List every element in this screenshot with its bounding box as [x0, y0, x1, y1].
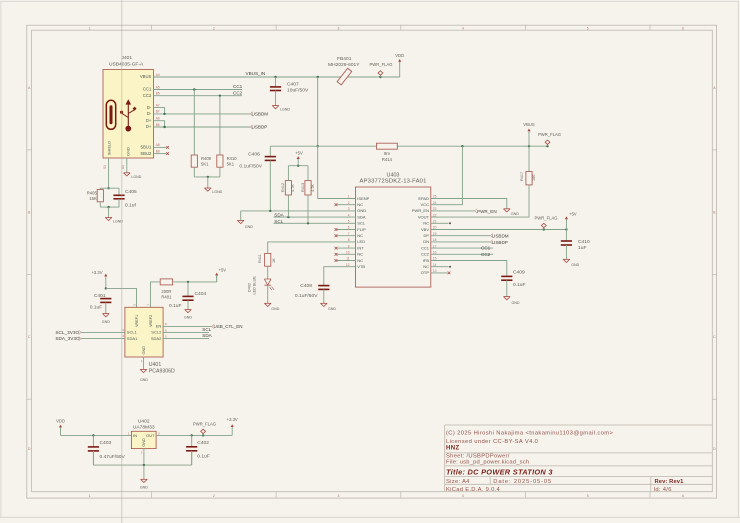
svg-text:PWR_FLAG: PWR_FLAG	[538, 132, 561, 137]
wire U401 gnd	[143, 357, 145, 369]
wire VDD to U402 IN	[61, 434, 132, 436]
svg-text:3: 3	[337, 26, 339, 30]
svg-text:C406: C406	[248, 152, 260, 158]
svg-text:+5V: +5V	[295, 150, 303, 155]
ground LGND below C407	[272, 106, 279, 109]
resistor R409	[191, 155, 197, 167]
wire U402 OUT to +3.3V	[156, 434, 232, 436]
ground GND below C408	[321, 303, 328, 306]
ground GND left of U403	[240, 211, 242, 221]
svg-text:Sheet: /USBPDPower/: Sheet: /USBPDPower/	[446, 453, 510, 459]
svg-text:C402: C402	[197, 440, 209, 446]
wire CC1 from J401	[154, 89, 243, 91]
svg-text:8: 8	[165, 322, 167, 326]
svg-text:VREF2: VREF2	[149, 315, 153, 327]
svg-text:100: 100	[532, 175, 536, 181]
svg-text:D+: D+	[146, 124, 152, 129]
wire +3.3V to VREF1	[106, 288, 137, 307]
svg-text:GND: GND	[102, 320, 110, 324]
svg-text:+5V: +5V	[569, 212, 577, 217]
svg-text:SDA1: SDA1	[127, 336, 138, 341]
wire CC2 pin16	[431, 253, 493, 255]
wire DP pin19	[431, 235, 491, 237]
svg-text:0.1uF: 0.1uF	[169, 303, 182, 309]
wire SCL pin5	[274, 222, 356, 224]
svg-text:B8: B8	[156, 149, 160, 153]
svg-text:MH2029-601Y: MH2029-601Y	[328, 62, 360, 68]
U403 pin 21 stub no-connect	[431, 222, 449, 224]
svg-text:5: 5	[165, 335, 167, 339]
junction CC1 to R409	[193, 88, 195, 90]
wire ISENP drop vertical	[317, 77, 319, 146]
svg-text:LGND: LGND	[131, 175, 141, 179]
wire LED pin8 to R411	[268, 242, 356, 254]
ic U403 body	[356, 187, 431, 287]
svg-text:UA78M33: UA78M33	[133, 425, 155, 431]
power symbol +5V u401	[216, 275, 218, 282]
wire +5V rail to pullups	[287, 166, 289, 181]
fold line horizontal	[0, 516, 740, 518]
svg-text:NC: NC	[357, 258, 363, 263]
svg-text:USBDM: USBDM	[492, 234, 509, 239]
svg-text:VBUS: VBUS	[140, 74, 152, 79]
power symbol +5V right	[565, 228, 567, 230]
svg-text:VDD: VDD	[56, 419, 65, 424]
svg-text:SDA_3V3O: SDA_3V3O	[55, 336, 80, 341]
power flag U402 out	[202, 434, 204, 436]
svg-text:CC2: CC2	[421, 252, 430, 257]
junction at ISENP drop	[317, 76, 319, 78]
svg-text:6: 6	[165, 328, 167, 332]
svg-text:File: usb_pd_power.kicad_sch: File: usb_pd_power.kicad_sch	[446, 460, 529, 466]
wire VBV pin20	[431, 229, 567, 231]
junction C406 bottom	[269, 210, 271, 212]
svg-text:C404: C404	[195, 291, 207, 297]
svg-text:C408: C408	[300, 283, 312, 289]
power symbol VBUS right	[528, 131, 530, 147]
svg-text:200R: 200R	[161, 289, 171, 294]
svg-text:PWR_EN: PWR_EN	[412, 208, 429, 213]
wire SDA pin4	[274, 216, 356, 218]
capacitor C405	[113, 194, 124, 196]
USB trident icon	[127, 103, 129, 128]
junction R414 bus left	[317, 145, 319, 147]
svg-text:PWR_FLAG: PWR_FLAG	[370, 62, 393, 67]
svg-text:GND: GND	[245, 225, 253, 229]
resistor R413	[307, 195, 309, 223]
wire GND pin3	[241, 210, 356, 212]
svg-text:GND: GND	[142, 438, 146, 447]
junction SDA R412	[287, 216, 289, 218]
wire C401 to gnd	[105, 302, 107, 313]
svg-text:GND: GND	[511, 212, 519, 216]
svg-text:SHIELD: SHIELD	[106, 141, 111, 156]
svg-text:4.7K: 4.7K	[311, 184, 315, 192]
svg-text:PCA9306D: PCA9306D	[149, 368, 175, 374]
svg-text:Size: A4: Size: A4	[446, 479, 470, 485]
wire U402 gnd rail	[143, 449, 145, 466]
svg-text:PWR_EN: PWR_EN	[477, 209, 497, 214]
svg-text:GND: GND	[357, 208, 366, 213]
svg-text:Id: 4/6: Id: 4/6	[654, 487, 672, 493]
svg-text:PWR_FLAG: PWR_FLAG	[193, 422, 216, 427]
svg-text:CC2: CC2	[143, 93, 152, 98]
svg-text:GND: GND	[142, 346, 146, 355]
resistor R405	[97, 190, 103, 202]
svg-text:SCL: SCL	[274, 219, 283, 224]
wire CC1 down to R409	[193, 90, 195, 156]
svg-text:0.1uF: 0.1uF	[90, 304, 103, 310]
svg-text:VDD: VDD	[395, 53, 404, 58]
wire R414 bus	[270, 145, 376, 147]
junction +3.3V C401	[105, 287, 107, 289]
ic U402 body	[131, 431, 156, 448]
power symbol +5V pullups	[297, 158, 299, 165]
svg-text:IFB: IFB	[423, 258, 430, 263]
svg-text:SDA: SDA	[357, 214, 366, 219]
svg-text:SCL_3V3O: SCL_3V3O	[55, 330, 79, 335]
capacitor C406	[269, 146, 271, 156]
svg-text:EN: EN	[156, 324, 162, 329]
svg-text:VOUT: VOUT	[418, 214, 430, 219]
wire VCC pin24 up to bus	[431, 146, 463, 205]
svg-text:0.1uF: 0.1uF	[197, 453, 210, 459]
svg-text:R414: R414	[382, 157, 393, 162]
svg-text:7: 7	[146, 304, 150, 306]
svg-text:NC: NC	[357, 202, 363, 207]
svg-text:B6: B6	[156, 123, 160, 127]
svg-text:R413: R413	[301, 183, 305, 192]
svg-text:PWR_FLAG: PWR_FLAG	[535, 216, 558, 221]
svg-text:SDA: SDA	[202, 333, 212, 338]
svg-text:SCL: SCL	[357, 221, 366, 226]
frame row ticks left/right	[27, 149, 32, 151]
svg-text:Date: 2025-05-05: Date: 2025-05-05	[493, 479, 552, 485]
svg-text:C407: C407	[287, 82, 299, 88]
capacitor C401	[100, 298, 111, 300]
ground LGND below R409 R410	[205, 188, 212, 191]
svg-text:GND: GND	[140, 378, 148, 382]
wire VBUS from J401 to VDD	[154, 76, 400, 78]
wire ISENP pin1	[317, 146, 319, 198]
svg-text:1K: 1K	[272, 258, 276, 263]
capacitor C404	[187, 282, 189, 297]
wire USBDP	[154, 126, 251, 128]
power flag near VBUS	[546, 145, 548, 147]
USB-C receptacle icon	[106, 100, 115, 129]
svg-text:NC: NC	[423, 221, 429, 226]
U403 pin 14 stub no-connect	[431, 266, 449, 268]
ground GND below C404	[185, 310, 192, 313]
svg-text:0.1uf: 0.1uf	[125, 202, 137, 208]
resistor R412	[287, 195, 289, 217]
ground GND right of U403	[504, 209, 511, 212]
svg-text:EPAD: EPAD	[418, 196, 429, 201]
wire J401 shield down	[108, 158, 110, 188]
wire SDA2 pin	[163, 338, 209, 340]
svg-text:C409: C409	[513, 270, 525, 276]
wire CC1 pin17	[431, 247, 493, 249]
junction C403	[92, 434, 94, 436]
svg-text:ISENP: ISENP	[357, 196, 369, 201]
svg-text:VTB: VTB	[357, 264, 365, 269]
U403 pin 13 stub no-connect	[431, 272, 448, 274]
svg-text:2: 2	[213, 494, 215, 498]
svg-text:0.1uF/50V: 0.1uF/50V	[295, 293, 318, 299]
svg-text:SDA2: SDA2	[151, 336, 162, 341]
resistor R417	[528, 146, 530, 171]
resistor R411	[265, 253, 271, 266]
svg-text:Rev: Rev1: Rev: Rev1	[655, 479, 685, 485]
svg-text:B5: B5	[156, 92, 160, 96]
svg-text:NC: NC	[423, 264, 429, 269]
wire LED to gnd	[267, 285, 269, 303]
svg-text:Licensed under CC-BY-SA V4.0: Licensed under CC-BY-SA V4.0	[446, 439, 538, 445]
ferrite bead FB401	[337, 68, 352, 85]
svg-text:+3.3V: +3.3V	[227, 417, 238, 422]
svg-text:R412: R412	[281, 183, 285, 192]
svg-text:R409: R409	[201, 156, 212, 161]
svg-text:A4: A4	[156, 73, 160, 77]
svg-text:CC2: CC2	[481, 252, 491, 257]
power flag on VBUS_IN	[379, 76, 381, 78]
svg-text:LGND: LGND	[280, 107, 290, 111]
svg-text:DP: DP	[423, 233, 429, 238]
wire C408 to gnd	[323, 289, 325, 303]
wire R409/R410 commons	[193, 167, 195, 177]
svg-text:10uF/50V: 10uF/50V	[287, 88, 309, 94]
svg-text:2: 2	[141, 451, 143, 455]
capacitor C407	[275, 77, 277, 87]
svg-text:NC: NC	[357, 252, 363, 257]
svg-text:DN: DN	[423, 239, 429, 244]
power flag on pin20 net	[543, 228, 545, 230]
svg-text:5K1: 5K1	[201, 161, 209, 166]
svg-text:AP33772SDKZ-13-FA01: AP33772SDKZ-13-FA01	[359, 179, 426, 185]
svg-text:6: 6	[682, 26, 684, 30]
frame column ticks top/bottom	[151, 25, 153, 30]
ic U401 body	[125, 307, 163, 357]
wire D- pair jog	[154, 108, 165, 114]
power symbol +3.3V right	[231, 425, 233, 427]
ground GND below C401	[103, 314, 110, 317]
junction SCL R413	[307, 222, 309, 224]
svg-text:R410: R410	[227, 156, 238, 161]
svg-text:GND: GND	[571, 263, 579, 267]
svg-text:B7: B7	[156, 110, 160, 114]
svg-text:S1: S1	[103, 165, 107, 169]
svg-text:LED BLUE: LED BLUE	[253, 276, 257, 295]
svg-text:A7: A7	[156, 103, 160, 107]
ground GND below C410	[563, 259, 570, 262]
svg-text:SBU2: SBU2	[140, 151, 152, 156]
svg-text:VREF1: VREF1	[135, 315, 139, 327]
svg-text:OUT: OUT	[146, 433, 155, 438]
shunt resistor R414	[377, 143, 398, 149]
wire DN pin18	[431, 241, 491, 243]
svg-text:9m: 9m	[384, 151, 390, 156]
svg-text:LGND: LGND	[212, 190, 222, 194]
power symbol +3.3V left	[105, 276, 107, 289]
wire SCL1	[81, 331, 125, 333]
svg-text:3: 3	[158, 431, 160, 435]
svg-text:USBDP: USBDP	[492, 240, 508, 245]
svg-text:+3.3V: +3.3V	[91, 270, 102, 275]
svg-text:R411: R411	[258, 254, 262, 263]
svg-text:LED: LED	[357, 239, 365, 244]
wire PWR_EN pin23	[431, 210, 475, 212]
svg-text:U401: U401	[149, 362, 162, 368]
junction VCC drop	[461, 145, 463, 147]
ground GND below C409	[504, 297, 511, 300]
wire VREF2 to R401	[151, 282, 161, 307]
svg-text:A6: A6	[156, 117, 160, 121]
svg-text:1: 1	[128, 431, 130, 435]
svg-text:SBU1: SBU1	[140, 145, 152, 150]
svg-text:CC1: CC1	[233, 84, 243, 89]
svg-text:1uF: 1uF	[578, 245, 586, 251]
svg-text:C405: C405	[125, 189, 137, 195]
ground GND below U401	[140, 369, 147, 372]
svg-text:4.7K: 4.7K	[291, 184, 295, 192]
svg-text:VBUS: VBUS	[523, 122, 535, 127]
svg-text:R405: R405	[87, 191, 98, 196]
svg-text:GND: GND	[271, 307, 279, 311]
svg-text:D-: D-	[147, 111, 152, 116]
svg-text:USBDM: USBDM	[252, 111, 269, 116]
svg-text:GND: GND	[328, 307, 336, 311]
ground LGND below shield network	[105, 217, 112, 220]
capacitor C410	[565, 230, 567, 242]
wire R417 to VOUT pin	[431, 185, 529, 217]
wire EPAD pin25 to gnd	[431, 199, 507, 209]
svg-text:INT: INT	[357, 245, 364, 250]
resistor R410	[217, 155, 223, 167]
connector J401 body	[103, 70, 154, 159]
svg-text:5K1: 5K1	[227, 161, 235, 166]
svg-text:VBV: VBV	[421, 227, 429, 232]
svg-text:1: 1	[89, 26, 91, 30]
shield bottom rail	[99, 202, 101, 207]
svg-text:15K: 15K	[89, 196, 97, 201]
svg-text:5: 5	[587, 26, 589, 30]
wire IFB pin15 to C409	[431, 261, 507, 276]
svg-text:2: 2	[132, 304, 136, 306]
wire VTB pin12 to C408	[324, 267, 356, 285]
fold line vertical	[121, 0, 123, 523]
wire EN pin	[163, 325, 211, 327]
junction R417 top	[528, 145, 530, 147]
capacitor C408	[318, 285, 329, 287]
svg-text:CC1: CC1	[481, 246, 491, 251]
svg-text:GND: GND	[140, 485, 148, 489]
J401 SBU1 no-connect cross	[166, 146, 169, 149]
svg-text:GND: GND	[512, 301, 520, 305]
svg-text:D402: D402	[248, 283, 252, 292]
svg-text:(C) 2025 Hiroshi Nakajima <tna: (C) 2025 Hiroshi Nakajima <tnakaminu1103…	[446, 430, 613, 436]
svg-text:1: 1	[89, 494, 91, 498]
junction at C407 tap	[274, 76, 276, 78]
wire CC2 from J401	[154, 95, 243, 97]
wire SDA1	[81, 338, 125, 340]
svg-text:2: 2	[213, 26, 215, 30]
svg-text:VCC: VCC	[421, 202, 430, 207]
J401 SBU2 no-connect cross	[166, 152, 169, 155]
ground LGND below J401	[124, 173, 131, 176]
svg-text:0.1uF: 0.1uF	[513, 282, 526, 288]
svg-text:SCL: SCL	[202, 327, 211, 332]
svg-text:USBDP: USBDP	[252, 124, 268, 129]
svg-text:USB4035-GF-A: USB4035-GF-A	[109, 62, 144, 68]
svg-text:SCL1: SCL1	[127, 330, 138, 335]
ground GND below D402	[264, 303, 271, 306]
svg-text:0.1uF/50V: 0.1uF/50V	[239, 163, 262, 169]
svg-text:A8: A8	[156, 143, 160, 147]
svg-text:USB_CTL_EN: USB_CTL_EN	[214, 324, 243, 329]
svg-text:FB401: FB401	[337, 56, 352, 62]
svg-text:U402: U402	[138, 419, 150, 425]
svg-text:4: 4	[462, 26, 464, 30]
svg-text:4: 4	[462, 494, 464, 498]
svg-text:KiCad E.D.A. 9.0.4: KiCad E.D.A. 9.0.4	[446, 487, 501, 493]
title block outline	[444, 425, 446, 492]
resistor R401 200R	[160, 279, 172, 285]
junction C402	[191, 434, 193, 436]
svg-text:IN: IN	[133, 433, 137, 438]
svg-text:1: 1	[141, 359, 143, 363]
wire R401 to +5V	[173, 281, 217, 283]
svg-text:OTP: OTP	[421, 270, 430, 275]
ground GND below U402	[141, 479, 148, 482]
svg-text:A5: A5	[156, 85, 160, 89]
svg-text:VBUS_IN: VBUS_IN	[246, 71, 266, 76]
svg-text:C401: C401	[94, 293, 106, 299]
svg-text:R401: R401	[161, 294, 172, 299]
led D402	[267, 266, 269, 279]
svg-text:GND: GND	[125, 147, 130, 156]
capacitor C409	[501, 275, 512, 277]
power symbol VDD top	[399, 61, 401, 77]
svg-text:NC: NC	[357, 233, 363, 238]
svg-text:C410: C410	[578, 239, 590, 245]
svg-text:CC1: CC1	[143, 87, 152, 92]
svg-text:22: 22	[433, 213, 437, 217]
svg-text:SDA: SDA	[274, 212, 284, 217]
wire CC2 down to R410	[219, 96, 221, 155]
capacitor C402	[191, 435, 193, 446]
svg-text:+5V: +5V	[219, 268, 227, 273]
svg-text:6: 6	[682, 494, 684, 498]
svg-text:Title: DC POWER STATION 3: Title: DC POWER STATION 3	[446, 467, 553, 476]
svg-text:D+: D+	[146, 118, 152, 123]
svg-text:U403: U403	[387, 172, 400, 178]
svg-text:D-: D-	[147, 105, 152, 110]
svg-text:FLIP: FLIP	[357, 227, 366, 232]
capacitor C403	[92, 435, 94, 447]
svg-text:5: 5	[587, 494, 589, 498]
svg-text:CC2: CC2	[233, 91, 243, 96]
shield top rail	[100, 187, 119, 189]
wire J401 GND pin down	[126, 158, 128, 173]
power symbol VDD bottom	[60, 427, 62, 436]
svg-text:R417: R417	[520, 172, 524, 181]
junction CC2 to R410	[219, 95, 221, 97]
svg-text:SCL2: SCL2	[151, 330, 162, 335]
wire SCL2 pin	[163, 331, 209, 333]
svg-text:C403: C403	[100, 440, 112, 446]
svg-text:3: 3	[122, 328, 124, 332]
svg-text:3: 3	[337, 494, 339, 498]
